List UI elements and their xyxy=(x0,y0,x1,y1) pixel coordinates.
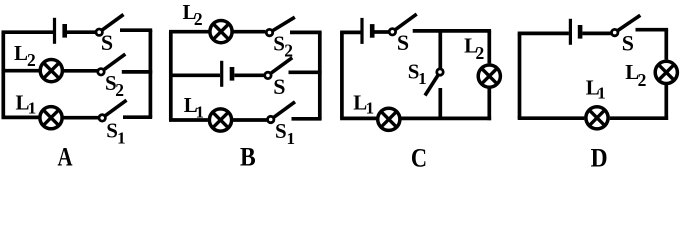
svg-text:S: S xyxy=(273,31,285,55)
svg-text:S: S xyxy=(397,30,409,55)
svg-text:D: D xyxy=(591,143,608,172)
svg-text:1: 1 xyxy=(597,84,606,103)
svg-text:2: 2 xyxy=(115,80,124,100)
svg-text:S: S xyxy=(275,119,287,143)
svg-text:2: 2 xyxy=(638,70,647,90)
svg-text:1: 1 xyxy=(117,129,126,148)
svg-text:S: S xyxy=(622,30,634,55)
svg-text:1: 1 xyxy=(366,99,375,118)
svg-text:1: 1 xyxy=(196,103,205,122)
svg-text:B: B xyxy=(240,142,256,171)
svg-text:1: 1 xyxy=(28,99,37,118)
svg-text:A: A xyxy=(58,143,73,172)
svg-text:2: 2 xyxy=(476,43,485,63)
svg-text:S: S xyxy=(273,74,285,99)
svg-text:2: 2 xyxy=(284,41,293,61)
svg-text:L: L xyxy=(14,41,28,65)
svg-text:1: 1 xyxy=(287,129,296,148)
svg-text:2: 2 xyxy=(27,50,36,70)
svg-text:1: 1 xyxy=(418,69,427,88)
svg-text:S: S xyxy=(101,30,113,55)
svg-text:C: C xyxy=(411,144,427,173)
svg-text:2: 2 xyxy=(194,9,203,29)
